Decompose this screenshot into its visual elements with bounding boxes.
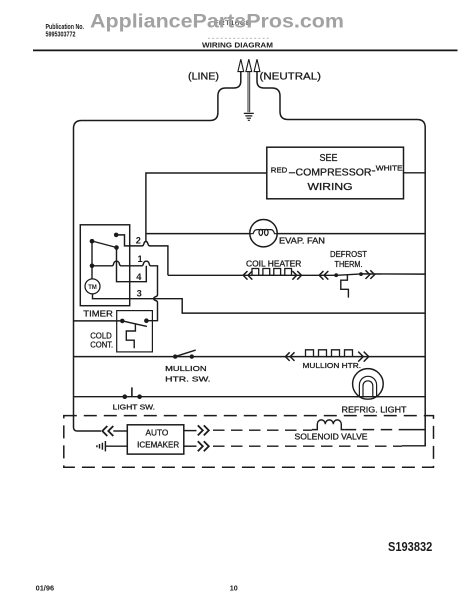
svg-text:COMPRESSOR: COMPRESSOR bbox=[296, 167, 372, 178]
svg-text:(NEUTRAL): (NEUTRAL) bbox=[260, 72, 322, 83]
wire evap fan line bbox=[146, 233, 425, 235]
evap fan coil bbox=[250, 230, 277, 234]
svg-text:CONT.: CONT. bbox=[90, 340, 113, 349]
mullion switch arm bbox=[175, 350, 196, 357]
header rule bbox=[33, 49, 458, 51]
wire mullion heater line bbox=[74, 356, 426, 358]
ground prong arrow bbox=[246, 59, 252, 71]
defrost therm switch arm bbox=[335, 274, 364, 276]
mullion heater plug right bbox=[358, 352, 369, 362]
timer contact C bbox=[114, 245, 119, 250]
wire timer motor to terminal 3 line bbox=[93, 294, 426, 313]
cold control box bbox=[117, 311, 153, 352]
wire stub compressor-white bbox=[372, 170, 376, 172]
svg-text:COLD: COLD bbox=[90, 331, 112, 340]
timer contact B bbox=[90, 239, 95, 244]
svg-text:AUTO: AUTO bbox=[146, 428, 169, 437]
wire B to D to timer motor bbox=[91, 241, 93, 279]
svg-text:10: 10 bbox=[230, 586, 238, 593]
scan artifact dotted underline bbox=[208, 37, 269, 39]
auto icemaker box bbox=[127, 425, 184, 454]
wire red compressor feed bbox=[146, 173, 267, 242]
wire icemaker out top bbox=[184, 430, 197, 432]
wire line prong to left bus (outer frame left) bbox=[74, 72, 241, 431]
cold control left contact bbox=[120, 319, 125, 324]
defrost therm right contact bbox=[359, 272, 363, 276]
cold control right contact bbox=[144, 318, 149, 323]
svg-text:3: 3 bbox=[137, 288, 142, 298]
svg-text:COIL HEATER: COIL HEATER bbox=[246, 259, 302, 268]
wire coil heater line bbox=[168, 274, 336, 276]
defrost therm sensor element bbox=[341, 275, 349, 298]
svg-text:SEE: SEE bbox=[320, 153, 338, 164]
wire light line bbox=[74, 396, 426, 398]
neutral prong arrow bbox=[254, 59, 260, 71]
svg-text:4: 4 bbox=[136, 272, 142, 282]
ground symbol bbox=[244, 113, 254, 120]
wire ground prong (double line) bbox=[248, 72, 250, 113]
timer switch arm B-C bbox=[92, 241, 117, 248]
defrost plug left bbox=[319, 271, 328, 280]
svg-text:LIGHT SW.: LIGHT SW. bbox=[113, 403, 155, 412]
svg-text:HTR. SW.: HTR. SW. bbox=[165, 374, 210, 383]
icemaker plug right top bbox=[198, 425, 209, 435]
svg-text:(LINE): (LINE) bbox=[188, 72, 219, 83]
svg-text:01/96: 01/96 bbox=[36, 586, 55, 593]
icemaker plug left bbox=[102, 426, 113, 436]
svg-text:THERM.: THERM. bbox=[335, 260, 363, 269]
svg-text:REFRIG. LIGHT: REFRIG. LIGHT bbox=[342, 405, 407, 414]
icemaker chassis ground bbox=[97, 441, 106, 451]
cold control sensor element bbox=[126, 324, 135, 349]
wire solenoid line dashed bbox=[213, 429, 312, 431]
refrig light bulb circle bbox=[353, 369, 384, 400]
svg-text:AppliancePartsPros.com: AppliancePartsPros.com bbox=[90, 11, 344, 33]
coil heater plug right bbox=[292, 271, 301, 280]
svg-text:TM: TM bbox=[88, 284, 97, 291]
mullion switch left contact bbox=[173, 354, 177, 358]
svg-text:DEFROST: DEFROST bbox=[330, 250, 367, 259]
solenoid coil bbox=[312, 420, 345, 430]
wire D to terminal 1 (with hops) down to cold control bbox=[92, 261, 158, 321]
defrost therm left contact bbox=[334, 273, 338, 277]
light switch left contact bbox=[123, 394, 128, 399]
mullion switch right contact bbox=[190, 354, 194, 358]
svg-text:MULLION HTR.: MULLION HTR. bbox=[303, 361, 362, 370]
timer motor TM bbox=[85, 279, 100, 294]
wire icemaker out bottom bbox=[184, 445, 197, 447]
compressor box (SEE COMPRESSOR WIRING) bbox=[267, 147, 404, 199]
wire solenoid to right bus bbox=[345, 429, 403, 431]
cold control switch arm bbox=[122, 321, 147, 327]
light switch right contact bbox=[137, 394, 142, 399]
timer contact A bbox=[114, 233, 119, 238]
coil heater element bbox=[252, 269, 292, 276]
svg-text:WIRING DIAGRAM: WIRING DIAGRAM bbox=[202, 40, 273, 49]
wire A to terminal 2 bbox=[116, 235, 168, 275]
svg-text:5995303772: 5995303772 bbox=[46, 30, 76, 39]
wire neutral prong to right bus (outer frame right) bbox=[257, 72, 425, 446]
svg-text:TIMER: TIMER bbox=[83, 308, 113, 318]
icemaker dashed enclosure bbox=[64, 416, 434, 468]
svg-text:ICEMAKER: ICEMAKER bbox=[137, 440, 179, 449]
wire white compressor to right bus bbox=[404, 172, 426, 174]
light switch plunger bbox=[131, 387, 133, 396]
wire C loop around terminal 4 bbox=[117, 248, 147, 282]
icemaker plug right bottom bbox=[198, 441, 209, 451]
mullion heater element bbox=[306, 350, 353, 357]
mullion heater plug left bbox=[285, 352, 294, 361]
svg-text:MULLION: MULLION bbox=[165, 364, 207, 373]
svg-text:SOLENOID VALVE: SOLENOID VALVE bbox=[295, 432, 368, 441]
svg-text:WIRING: WIRING bbox=[308, 182, 353, 193]
svg-text:S193832: S193832 bbox=[388, 539, 432, 554]
timer box bbox=[80, 225, 129, 306]
wire icemaker feed bbox=[113, 430, 127, 432]
defrost plug right bbox=[366, 270, 375, 279]
svg-text:2: 2 bbox=[136, 235, 141, 245]
svg-text:EVAP. FAN: EVAP. FAN bbox=[279, 236, 325, 245]
svg-text:RED: RED bbox=[271, 165, 288, 174]
wire left bus to cold control bbox=[74, 320, 121, 322]
svg-text:WHITE: WHITE bbox=[376, 164, 403, 173]
line prong arrow bbox=[238, 59, 244, 71]
evap fan motor circle bbox=[250, 220, 277, 247]
wire stub red-compressor bbox=[289, 172, 295, 174]
svg-text:1: 1 bbox=[138, 254, 143, 264]
wire defrost to right bus bbox=[361, 273, 425, 275]
timer contact D bbox=[90, 264, 95, 269]
wire icemaker ground feed bbox=[105, 445, 127, 447]
wire icemaker return dashed bbox=[213, 445, 402, 447]
coil heater plug left bbox=[243, 271, 252, 280]
refrig light filament bbox=[356, 376, 380, 396]
